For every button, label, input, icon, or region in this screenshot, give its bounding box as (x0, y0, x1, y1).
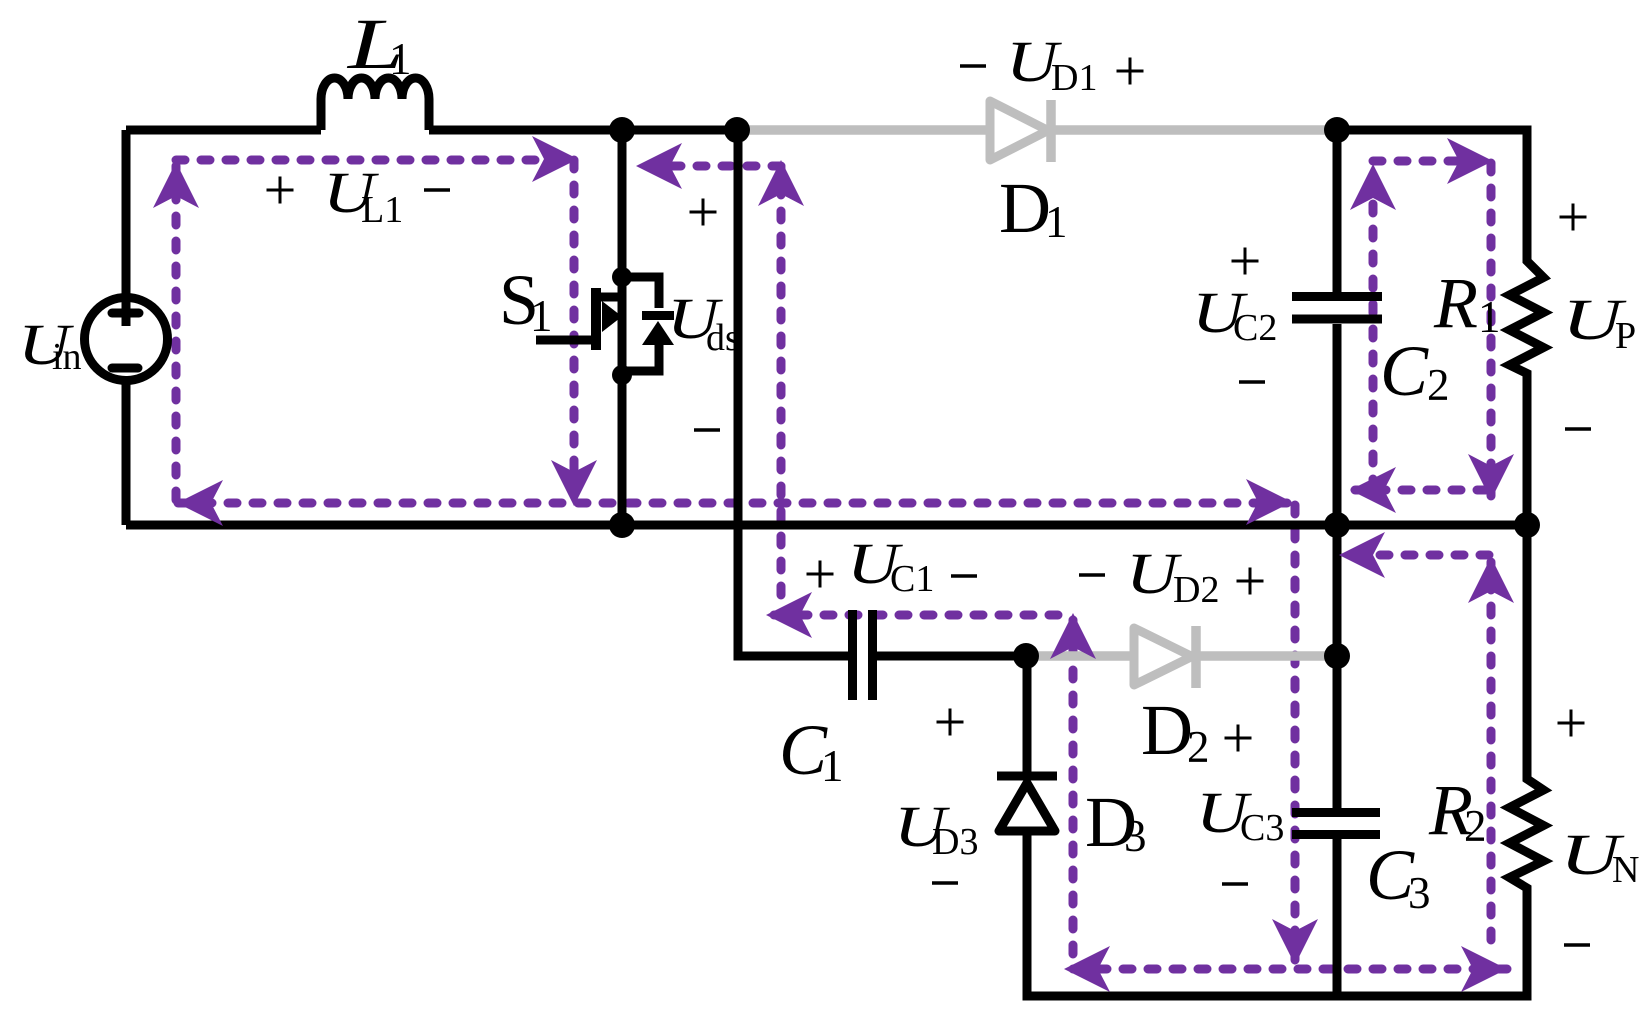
minus of U_P (1565, 427, 1591, 431)
transistor S1 body-diode branch lower (622, 343, 659, 371)
plus of U_N (1558, 710, 1585, 737)
wire loop i2 right segment (C1 branch) (777, 168, 786, 595)
svg-text:1: 1 (821, 741, 844, 791)
arrowhead loop i4 up (1050, 613, 1096, 659)
svg-text:P: P (1615, 315, 1636, 357)
svg-text:C1: C1 (890, 558, 934, 600)
svg-text:1: 1 (530, 291, 553, 341)
wire D3 branch upper (1023, 656, 1032, 772)
svg-text:D1: D1 (1051, 57, 1097, 99)
transistor S1 gate lead (536, 336, 601, 345)
node C2 bottom / C3 top on return rail (1324, 512, 1350, 538)
minus of U_N (1564, 943, 1590, 947)
plus of U_D1 (1117, 58, 1144, 85)
wire C1 branch from top node down and right (738, 130, 848, 656)
wire left vertical into source (plus lead) (122, 130, 131, 326)
wire loop i4 up segment (right of D3) (1069, 618, 1078, 954)
svg-text:1: 1 (389, 34, 412, 84)
minus mark inside source (112, 364, 138, 373)
plus of U_C3 (1225, 725, 1252, 752)
capacitor C1 left plate (848, 610, 857, 700)
arrowhead loop i6 right (1447, 138, 1493, 184)
arrowhead loop i1 left (177, 480, 223, 526)
svg-text:D3: D3 (932, 821, 978, 863)
wire bottom return rail (126, 521, 1527, 530)
svg-text:3: 3 (1124, 811, 1147, 861)
wire loop i6 right segment (left of R1) (1487, 163, 1496, 496)
wire loop i1 top segment (under L1) (176, 156, 574, 165)
svg-text:N: N (1612, 849, 1639, 891)
diode D3 cathode bar (997, 772, 1057, 781)
arrowhead loop i1 up (153, 162, 199, 208)
diode D2 triangle (off, gray) (1134, 628, 1192, 685)
svg-text:2: 2 (1187, 722, 1210, 772)
wire loop i2 top segment (into S1 drain node) (640, 162, 781, 171)
minus of U_C2 (1239, 380, 1265, 384)
svg-text:2: 2 (1427, 360, 1450, 410)
svg-text:C: C (1380, 331, 1429, 411)
wire top rail: inductor to switch node (429, 126, 737, 135)
minus of U_D1 (960, 64, 986, 68)
transistor S1 drain stub (601, 293, 620, 302)
svg-text:D: D (1141, 690, 1193, 770)
wire top rail: source corner to inductor (126, 126, 321, 135)
diode D1 cathode bar (1046, 100, 1056, 162)
plus of U_L1 (267, 177, 294, 204)
wire left vertical below source (122, 380, 131, 525)
capacitor C3 bottom plate (1292, 830, 1380, 839)
wire S1 drain-source branch (618, 130, 627, 525)
node C1 right / D2 anode / D3 anode (1013, 643, 1039, 669)
wire loop i6 bottom segment (1355, 486, 1486, 495)
arrowhead loop i6 down (1468, 454, 1514, 500)
arrowhead loop i1 right (532, 136, 578, 182)
diode D2 cathode bar (1191, 626, 1201, 688)
wire C3 branch lower (1333, 839, 1342, 996)
wire loop i6 top segment (1373, 157, 1488, 166)
svg-text:1: 1 (1045, 197, 1068, 247)
wire loop i3 down segment (left of C3) (1291, 505, 1300, 960)
wire gray link through D2 (1026, 651, 1337, 661)
minus of U_D2 (1079, 573, 1105, 577)
capacitor C2 bottom plate (1292, 315, 1382, 324)
wire shared bottom dashed segment along return rail (178, 499, 1288, 508)
svg-text:D: D (999, 168, 1051, 248)
arrowhead loop i5 up (1468, 557, 1514, 603)
plus of U_ds (690, 199, 717, 226)
resistor R2 (1510, 525, 1544, 996)
diode D3 triangle (conducting) (999, 783, 1055, 831)
wire loop i5 top segment (into C3 node) (1344, 551, 1489, 560)
node S1 source on return rail (609, 512, 635, 538)
arrowhead loop i3 right (1246, 479, 1292, 525)
capacitor C2 top plate (1292, 292, 1382, 301)
plus of U_C1 (807, 561, 834, 588)
transistor S1 body-diode branch upper (622, 277, 659, 308)
transistor S1 body-diode triangle (642, 321, 674, 345)
transistor S1 body-diode cathode bar (642, 311, 674, 320)
arrowhead loop i6 up (1350, 164, 1396, 210)
wire C2 branch lower (1333, 324, 1342, 525)
minus of U_D3 (932, 881, 958, 885)
voltage source U_in circle (85, 298, 168, 381)
node D1 cathode / C2 top (1324, 117, 1350, 143)
inductor L1 (321, 78, 429, 130)
wire C2 branch upper (1333, 130, 1342, 292)
svg-text:3: 3 (1408, 868, 1431, 918)
arrowhead loop i4 left (766, 592, 812, 638)
svg-text:C3: C3 (1240, 807, 1284, 849)
node S1 drain dot (612, 267, 632, 287)
wire loop i1 left segment (Uin branch) (172, 163, 181, 500)
svg-text:C2: C2 (1233, 307, 1277, 349)
wire gray top link through D1 (737, 125, 1337, 135)
wire loop i4 left segment (over C1) (770, 611, 1058, 620)
svg-text:L1: L1 (361, 189, 403, 231)
transistor S1 channel arrow (602, 301, 622, 332)
capacitor C3 top plate (1292, 808, 1380, 817)
arrowhead loop i6 left (1350, 467, 1396, 513)
plus of U_D2 (1237, 568, 1264, 595)
svg-text:R: R (1433, 263, 1478, 343)
svg-text:1: 1 (1478, 292, 1501, 342)
svg-text:in: in (52, 336, 82, 378)
arrowhead loop i2 left (636, 143, 682, 189)
plus mark inside source (112, 309, 139, 318)
plus of U_D3 (937, 709, 964, 736)
node R1 bottom on return rail (1514, 512, 1540, 538)
plus of U_P (1560, 204, 1587, 231)
svg-text:D2: D2 (1173, 569, 1219, 611)
wire loop i3/i4 bottom dashed segment (1073, 965, 1508, 974)
node S1 source dot (612, 365, 632, 385)
wire D3 branch lower and bottom link (1027, 831, 1532, 996)
arrowhead loop i3 bottom right (1461, 946, 1507, 992)
minus of U_ds (694, 428, 720, 432)
diode D1 triangle (off, gray) (990, 101, 1048, 160)
minus of U_C3 (1222, 882, 1248, 886)
arrowhead loop i1 down (551, 460, 597, 506)
arrowhead loop i4 bottom left (1064, 946, 1110, 992)
wire loop i6 left segment (right of C2) (1369, 168, 1378, 488)
transistor S1 MOSFET gate bar (591, 288, 601, 350)
wire C3 branch upper (1333, 525, 1342, 808)
svg-text:2: 2 (1464, 801, 1487, 851)
arrowhead loop i5 left (1339, 532, 1385, 578)
arrowhead loop i2 up (758, 160, 804, 206)
minus of U_L1 (424, 188, 450, 192)
capacitor C1 right plate (868, 610, 877, 700)
wire C1 to D2/D3 node (877, 652, 1026, 661)
resistor R1 with top feed wire (1337, 130, 1544, 525)
wire loop i1 right segment (S1 branch) (570, 160, 579, 500)
arrowhead loop i3 down (1272, 919, 1318, 965)
plus of U_C2 (1232, 248, 1259, 275)
node D2 cathode on C3 branch (1324, 643, 1350, 669)
wire loop i5 right segment (left of R2) (1487, 562, 1496, 940)
minus of U_C1 (951, 574, 977, 578)
node switch/top junction at L1-S1 (609, 117, 635, 143)
node top junction to C1 branch and D1 anode (724, 117, 750, 143)
